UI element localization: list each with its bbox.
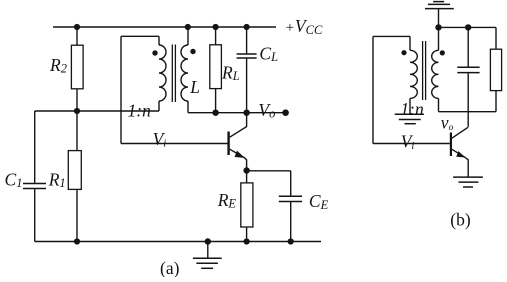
svg-text:L: L xyxy=(189,77,200,97)
svg-text:(a): (a) xyxy=(160,258,180,277)
svg-text:1:n: 1:n xyxy=(400,99,424,119)
svg-text:1:n: 1:n xyxy=(128,101,152,121)
svg-text:(b): (b) xyxy=(450,210,471,230)
